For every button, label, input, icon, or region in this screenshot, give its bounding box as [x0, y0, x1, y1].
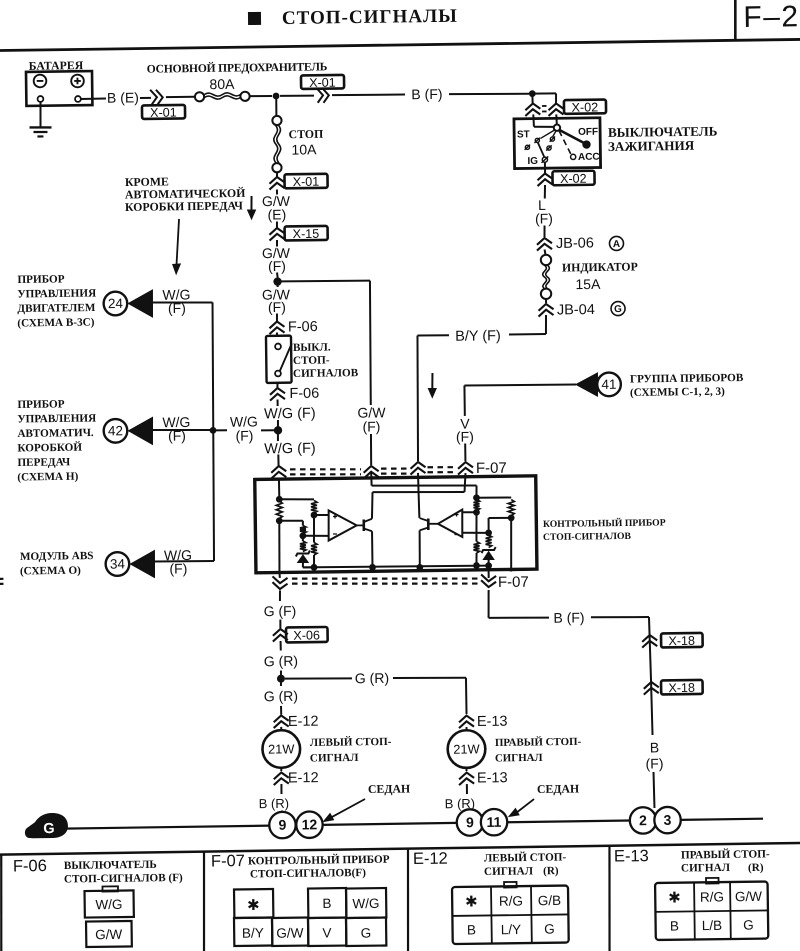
- table divider 3: [608, 846, 611, 951]
- svg-text:ПРАВЫЙ СТОП-: ПРАВЫЙ СТОП-: [681, 847, 770, 861]
- ignition contact aux3: [547, 146, 551, 150]
- wire 34 to left bus: [155, 561, 214, 562]
- wire below node: [280, 682, 282, 686]
- connector symbol X-01 (main wire): [316, 88, 323, 103]
- wire left bus to W/G label: [213, 429, 227, 431]
- connector box X-02 (bottom): [552, 171, 594, 186]
- svg-text:ПЕРЕДАЧ: ПЕРЕДАЧ: [17, 456, 71, 469]
- svg-text:G/W: G/W: [735, 889, 762, 904]
- resistor R1: [276, 501, 282, 519]
- resistor R8: [508, 500, 514, 516]
- indicator fuse 15A: [541, 255, 552, 266]
- svg-text:B: B: [467, 922, 476, 937]
- connector symbol JB-06: [537, 238, 552, 245]
- wire R8 node down to box bottom: [510, 518, 511, 572]
- wire to L(F) label: [544, 185, 547, 199]
- svg-text:КОНТРОЛЬНЫЙ ПРИБОР: КОНТРОЛЬНЫЙ ПРИБОР: [543, 516, 666, 530]
- resistor R7: [473, 541, 479, 553]
- wire to opamp - input right: [462, 531, 488, 534]
- wire to W/G node: [277, 420, 279, 427]
- svg-text:F-06: F-06: [288, 319, 318, 335]
- ignition contact aux1: [525, 145, 529, 149]
- svg-text:E-12: E-12: [288, 714, 319, 730]
- wire R4 node down: [302, 536, 304, 541]
- svg-text:✱: ✱: [668, 889, 681, 906]
- svg-text:ОСНОВНОЙ ПРЕДОХРАНИТЕЛЬ: ОСНОВНОЙ ПРЕДОХРАНИТЕЛЬ: [147, 60, 328, 75]
- ignition rotor line to ST: [540, 130, 555, 139]
- control unit box КОНТРОЛЬНЫЙ ПРИБОР СТОП-СИГНАЛОВ: [255, 476, 537, 573]
- wire to X-15: [276, 221, 278, 228]
- wire R2 to opamp + input: [314, 514, 329, 516]
- svg-text:X-18: X-18: [668, 634, 695, 648]
- node rail Q2: [416, 564, 423, 571]
- svg-text:R/G: R/G: [499, 893, 523, 908]
- svg-text:E-13: E-13: [477, 770, 508, 786]
- svg-text:СТОП-СИГНАЛОВ: СТОП-СИГНАЛОВ: [543, 531, 632, 543]
- wire W/G label to node: [261, 429, 274, 431]
- branch node G/W: [273, 277, 282, 286]
- svg-text:G: G: [614, 304, 622, 315]
- right stop lamp 21W: [447, 730, 485, 768]
- circled letter A: [609, 236, 623, 250]
- connector symbol F-07 (W/G pin): [271, 466, 286, 473]
- connector dashes F-07 bottom row: [0, 578, 3, 580]
- wire W/G through unit down: [279, 521, 280, 573]
- table F-07 cell V: [308, 918, 346, 946]
- connector symbol X-18 (lower): [644, 682, 659, 689]
- wire junction to stop fuse: [275, 96, 277, 116]
- dashes between X-02 pins: [542, 105, 546, 107]
- ignition switch box ВЫКЛЮЧАТЕЛЬ ЗАЖИГАНИЯ: [514, 118, 601, 169]
- node rail left: [311, 564, 318, 571]
- wire to stop switch: [276, 332, 278, 336]
- svg-text:(СХЕМЫ C-1, 2, 3): (СХЕМЫ C-1, 2, 3): [630, 386, 725, 399]
- junction node main wire / stop fuse: [273, 93, 280, 100]
- svg-text:B: B: [670, 918, 679, 933]
- table F-07 cell asterisk: [234, 889, 273, 918]
- wire to left lamp: [280, 727, 282, 731]
- connector symbol X-06: [273, 629, 288, 636]
- svg-text:11: 11: [486, 814, 501, 830]
- svg-text:СИГНАЛ (R): СИГНАЛ (R): [484, 865, 559, 878]
- svg-text:L/B: L/B: [702, 918, 722, 933]
- svg-text:42: 42: [108, 423, 123, 438]
- svg-text:ПРИБОР: ПРИБОР: [17, 398, 64, 411]
- connector symbol X-01 (battery side): [150, 90, 157, 105]
- connector symbol X-01 (stop branch): [269, 177, 284, 184]
- node lamp branch: [277, 675, 285, 683]
- svg-text:B/Y (F): B/Y (F): [455, 328, 501, 345]
- connector symbol F-07 (G/W pin): [364, 466, 379, 473]
- node R1 bottom: [276, 517, 283, 524]
- table top border: [0, 843, 800, 855]
- connector symbol X-02 (bottom): [537, 173, 552, 180]
- wire G/W path down to right network: [475, 485, 477, 495]
- wire to control unit connector: [277, 454, 279, 466]
- wire B down from F-07: [487, 590, 490, 618]
- table F-06 cell W/G: [85, 890, 134, 917]
- svg-text:G/W: G/W: [276, 925, 303, 940]
- svg-text:24: 24: [108, 296, 124, 311]
- wire to G/W(F) label: [276, 240, 278, 247]
- svg-text:10А: 10А: [291, 141, 317, 157]
- svg-text:СТОП-СИГНАЛОВ(F): СТОП-СИГНАЛОВ(F): [250, 867, 366, 881]
- node rail Q1: [369, 564, 376, 571]
- wire R6 top to R8: [477, 496, 512, 499]
- node R1 top: [276, 496, 283, 503]
- svg-text:B: B: [650, 739, 660, 755]
- svg-text:E-12: E-12: [288, 770, 319, 786]
- junction left bus row2: [210, 427, 217, 434]
- ignition contact ACC: [571, 154, 576, 159]
- wire down to - input node right: [487, 518, 489, 531]
- svg-text:ЛЕВЫЙ СТОП-: ЛЕВЫЙ СТОП-: [484, 850, 567, 864]
- wire B/Y vertical: [416, 335, 419, 461]
- wire R2 node down: [313, 515, 316, 543]
- circled letter G: [611, 301, 625, 315]
- wire to F-06 connector: [276, 313, 278, 321]
- battery positive post: [75, 96, 81, 102]
- svg-text:B (E): B (E): [107, 89, 139, 105]
- svg-text:G/B: G/B: [538, 893, 561, 908]
- circle terminal 41: [597, 372, 621, 396]
- ground point 11: [481, 809, 508, 836]
- ground point 9 (right): [457, 809, 484, 836]
- svg-text:ГРУППА ПРИБОРОВ: ГРУППА ПРИБОРОВ: [630, 372, 744, 385]
- wire to ground circle right: [467, 811, 470, 813]
- main wire to B(F) label: [332, 94, 405, 95]
- ground point 12: [296, 811, 323, 838]
- table divider 2: [407, 849, 410, 951]
- node R4 bottom: [299, 532, 306, 539]
- wire to E-12 connector: [280, 706, 282, 715]
- svg-text:B (F): B (F): [411, 86, 442, 102]
- table E-12 connector tab: [504, 882, 517, 888]
- connector box X-01 (stop branch): [284, 174, 327, 189]
- connector symbol F-07 (V pin): [458, 462, 473, 469]
- ignition rotor line short: [553, 131, 556, 137]
- wire V path horizontal inside unit: [373, 491, 465, 493]
- wire node2 right: [279, 519, 303, 522]
- wire battery positive to B(E): [81, 98, 106, 100]
- wire ZD2 to rail node: [488, 560, 490, 566]
- svg-text:F-06: F-06: [289, 386, 319, 402]
- ground rail inside unit: [303, 565, 489, 568]
- resistor R5: [300, 541, 306, 552]
- svg-text:9: 9: [278, 817, 286, 833]
- svg-text:ST: ST: [517, 129, 530, 140]
- wire B/Y pin into unit down to Q2: [418, 473, 419, 518]
- wire Q1 emitter to rail: [371, 531, 373, 567]
- wire to G/W(E) label: [276, 189, 278, 194]
- wire IG contact down out of switch: [544, 163, 546, 173]
- wire B(E) to connector X-01: [140, 97, 151, 99]
- node R8 bottom: [508, 514, 515, 521]
- svg-text:X-01: X-01: [150, 106, 177, 120]
- svg-text:F–2: F–2: [743, 0, 800, 34]
- wire right lamp vertical: [465, 678, 468, 714]
- circle terminal 42: [104, 419, 128, 443]
- svg-text:R/G: R/G: [700, 889, 724, 904]
- table F-07 cell B/Y: [234, 918, 272, 946]
- table E-13 grid: [693, 883, 696, 940]
- circle terminal 34: [105, 552, 129, 576]
- wire W/G inside unit: [278, 479, 280, 496]
- wire B to ground circles: [653, 772, 656, 808]
- svg-text:34: 34: [110, 556, 126, 571]
- svg-text:УПРАВЛЕНИЯ: УПРАВЛЕНИЯ: [17, 287, 96, 300]
- ignition contact IG: [542, 157, 547, 162]
- svg-text:G: G: [361, 926, 372, 941]
- wire to G(F) label: [279, 590, 281, 601]
- wire 42 to left bus: [152, 429, 210, 430]
- wire G/W branch to connector: [370, 434, 373, 465]
- ground car symbol G: [25, 813, 68, 839]
- svg-text:G: G: [544, 922, 555, 937]
- svg-text:X-01: X-01: [309, 76, 336, 90]
- wire junction to right connector: [532, 92, 556, 94]
- op-amp U2 (right comparator): [438, 510, 463, 538]
- wire G/W pin into unit: [370, 473, 372, 486]
- zener diode ZD2: [482, 547, 496, 553]
- svg-text:(F): (F): [235, 427, 253, 443]
- svg-text:(СХЕМА О): (СХЕМА О): [20, 565, 81, 578]
- svg-text:СТОП-СИГНАЛЫ: СТОП-СИГНАЛЫ: [282, 6, 458, 29]
- svg-text:(F): (F): [535, 210, 553, 226]
- svg-text:СЕДАН: СЕДАН: [537, 781, 579, 796]
- ground point 2: [630, 807, 657, 834]
- page code box F-2: [735, 0, 736, 41]
- svg-text:(F): (F): [169, 560, 187, 576]
- wire to B(R) label left: [280, 784, 282, 794]
- svg-text:ДВИГАТЕЛЕМ: ДВИГАТЕЛЕМ: [17, 302, 96, 315]
- svg-text:B (F): B (F): [553, 609, 584, 625]
- svg-text:(R): (R): [748, 862, 764, 874]
- table F-06 connector tab: [102, 886, 118, 891]
- ignition dashed line to ACC: [559, 131, 571, 155]
- svg-text:ЗАЖИГАНИЯ: ЗАЖИГАНИЯ: [608, 138, 695, 154]
- wire B continue: [651, 680, 653, 735]
- svg-text:B/Y: B/Y: [242, 925, 264, 940]
- connector symbol E-13 (top): [459, 715, 474, 722]
- connector symbol F-07 bottom right: [481, 580, 496, 587]
- resistor R6: [473, 499, 479, 510]
- svg-text:JB-04: JB-04: [557, 302, 595, 318]
- svg-text:41: 41: [601, 377, 616, 392]
- svg-text:УПРАВЛЕНИЯ: УПРАВЛЕНИЯ: [17, 412, 96, 425]
- connector symbol X-02 right pin: [548, 103, 563, 110]
- svg-text:КОРОБКОЙ: КОРОБКОЙ: [17, 441, 82, 455]
- wire stop fuse to X-01: [276, 172, 278, 178]
- table E-12 outline: [452, 886, 569, 945]
- table divider 1: [203, 852, 206, 951]
- node R6 top: [473, 494, 480, 501]
- wire B exit unit bottom: [487, 566, 489, 578]
- svg-text:W/G: W/G: [352, 896, 379, 911]
- resistor R4: [300, 525, 306, 533]
- main wire B to junction: [250, 95, 272, 97]
- ground bus wire: [64, 826, 269, 829]
- wire to main fuse: [166, 96, 195, 98]
- wire U1 output to Q1: [357, 524, 363, 526]
- svg-text:СТОП-: СТОП-: [293, 355, 330, 367]
- svg-text:(F): (F): [268, 258, 286, 274]
- connector symbol F-07 (B/Y pin): [410, 462, 425, 469]
- svg-text:E-13: E-13: [477, 714, 508, 730]
- wire JB-06 to indicator fuse: [544, 249, 547, 255]
- svg-text:V: V: [322, 925, 331, 940]
- svg-text:JB-06: JB-06: [556, 235, 594, 251]
- svg-text:21W: 21W: [268, 741, 295, 756]
- wire to X-06: [279, 619, 281, 628]
- ignition contact aux2: [550, 137, 554, 141]
- brake light switch F-06 ВЫКЛ.СТОП-СИГНАЛОВ: [266, 336, 292, 383]
- svg-text:B: B: [322, 896, 331, 911]
- wire V vertical: [463, 385, 465, 415]
- wire left pin into switch: [532, 114, 535, 126]
- svg-text:OFF: OFF: [578, 127, 598, 138]
- svg-text:ИНДИКАТОР: ИНДИКАТОР: [562, 259, 638, 274]
- wire B/Y to left corner: [417, 334, 448, 337]
- triangle connector 24: [128, 290, 153, 317]
- wire node to R2: [279, 498, 314, 501]
- resistor R9: [485, 535, 491, 548]
- wire to B(R) label right: [466, 784, 468, 794]
- arrow down beside B/Y wire: [431, 373, 434, 390]
- battery plus terminal symbol: [71, 75, 84, 88]
- svg-text:X-18: X-18: [668, 681, 695, 695]
- connector box X-18 (upper): [661, 633, 703, 648]
- resistor R2: [311, 500, 317, 513]
- connector box X-01 (main wire): [301, 75, 344, 89]
- triangle connector 34: [130, 551, 155, 578]
- wire switch to F-06 connector bottom: [276, 383, 278, 388]
- wire R8 node left: [489, 517, 512, 519]
- main wire B(F) to ignition junction: [449, 93, 529, 95]
- branch wire to right G/W column: [281, 280, 369, 282]
- svg-text:W/G: W/G: [95, 897, 122, 912]
- svg-text:X-02: X-02: [572, 100, 599, 114]
- svg-text:21W: 21W: [453, 741, 480, 756]
- table E-12 grid: [490, 887, 493, 944]
- node R6 bottom: [473, 509, 480, 516]
- wire Q2 emitter to rail: [418, 530, 421, 567]
- connector box X-15: [285, 226, 328, 241]
- wire R3 to rail: [313, 555, 315, 567]
- connector symbol F-06 (top): [269, 321, 284, 328]
- wire JB-04 down and left to B/Y: [545, 315, 548, 334]
- ignition lever ST-IG: [538, 143, 544, 157]
- svg-text:КОРОБКИ ПЕРЕДАЧ: КОРОБКИ ПЕРЕДАЧ: [125, 198, 243, 214]
- zener diode ZD1: [296, 550, 310, 556]
- arrow down beside G/W(E): [250, 196, 253, 212]
- svg-text:АВТОМАТИЧ.: АВТОМАТИЧ.: [17, 427, 94, 440]
- title bullet: [248, 12, 261, 25]
- transistor Q1: [362, 519, 365, 531]
- svg-text:G/W: G/W: [95, 927, 122, 942]
- svg-text:СИГНАЛ: СИГНАЛ: [495, 752, 543, 765]
- junction node ignition feed: [529, 90, 536, 97]
- svg-text:(F): (F): [456, 428, 474, 444]
- svg-text:3: 3: [663, 812, 671, 828]
- svg-text:✱: ✱: [247, 897, 260, 914]
- svg-text:X-15: X-15: [293, 227, 320, 241]
- svg-text:ПРИБОР: ПРИБОР: [17, 273, 64, 286]
- wire node to below label: [277, 434, 279, 441]
- svg-text:W/G (F): W/G (F): [264, 406, 316, 423]
- svg-text:E-12: E-12: [413, 850, 448, 868]
- wire V to connector: [464, 444, 466, 461]
- wire to branch node: [276, 272, 279, 277]
- svg-text:(F): (F): [268, 299, 286, 315]
- wire lamp to E-13 bottom connector: [465, 768, 467, 771]
- svg-text:СТОП: СТОП: [289, 127, 324, 141]
- wire R7 to rail: [475, 553, 477, 566]
- node right - input: [485, 529, 492, 536]
- connector symbol E-12 (bottom): [274, 772, 289, 779]
- ignition OFF position dot: [582, 140, 591, 149]
- node rail right2 (B output): [485, 562, 492, 569]
- table E-13 connector tab: [706, 878, 719, 884]
- wire 24 to left bus: [153, 302, 213, 303]
- svg-text:(F): (F): [645, 755, 663, 771]
- long arrow from KROME to row1 wire: [176, 219, 180, 266]
- svg-text:G (R): G (R): [264, 653, 298, 669]
- main fuse 80A: [195, 92, 204, 101]
- svg-text:X-01: X-01: [293, 175, 320, 189]
- svg-text:2: 2: [639, 812, 647, 828]
- svg-text:X-02: X-02: [560, 172, 587, 186]
- svg-text:СИГНАЛОВ: СИГНАЛОВ: [293, 367, 359, 380]
- wire to W/G label: [277, 399, 279, 406]
- ignition rotor pivot: [554, 124, 560, 130]
- wire G/W path horizontal inside unit: [372, 484, 477, 487]
- table F-06 cell G/W: [86, 921, 132, 947]
- svg-text:F-07: F-07: [498, 574, 529, 591]
- connector symbol F-06 (bottom): [270, 388, 285, 395]
- svg-text:ВЫКЛ.: ВЫКЛ.: [293, 341, 331, 353]
- wire to G(R) label: [280, 641, 282, 651]
- connector box X-02 (top): [564, 100, 606, 114]
- branch wire to right lamp: [285, 678, 352, 679]
- arrow СЕДАН to ground 12 (left): [330, 799, 366, 818]
- ground point 9 (left): [269, 812, 296, 839]
- table E-13 outline: [655, 882, 768, 940]
- table F-07 cell G: [346, 918, 386, 947]
- wire R4 to opamp - input: [303, 534, 329, 537]
- wire R6 node to opamp + input right: [462, 511, 476, 513]
- wire right pin into switch: [555, 114, 558, 124]
- wire V pin into unit: [464, 473, 465, 492]
- connector symbol E-12 (top): [274, 715, 289, 722]
- connector symbol F-07 bottom left: [272, 582, 287, 589]
- transistor Q2: [427, 519, 430, 531]
- ground point 3: [654, 807, 681, 834]
- svg-text:IG: IG: [527, 156, 538, 167]
- connector symbol E-13 (bottom): [459, 772, 474, 779]
- triangle connector 42: [128, 417, 153, 444]
- wire below branch node: [277, 285, 279, 286]
- svg-text:СИГНАЛ: СИГНАЛ: [310, 752, 359, 765]
- triangle connector 41: [576, 373, 598, 396]
- svg-text:МОДУЛЬ ABS: МОДУЛЬ ABS: [20, 550, 94, 563]
- wire R6 node down: [475, 512, 478, 541]
- wire B(F) to corner: [591, 617, 649, 618]
- svg-text:B (R): B (R): [259, 796, 290, 811]
- connector symbol X-15: [269, 228, 284, 235]
- svg-text:15А: 15А: [575, 276, 601, 292]
- wire V horizontal to cluster: [464, 384, 576, 386]
